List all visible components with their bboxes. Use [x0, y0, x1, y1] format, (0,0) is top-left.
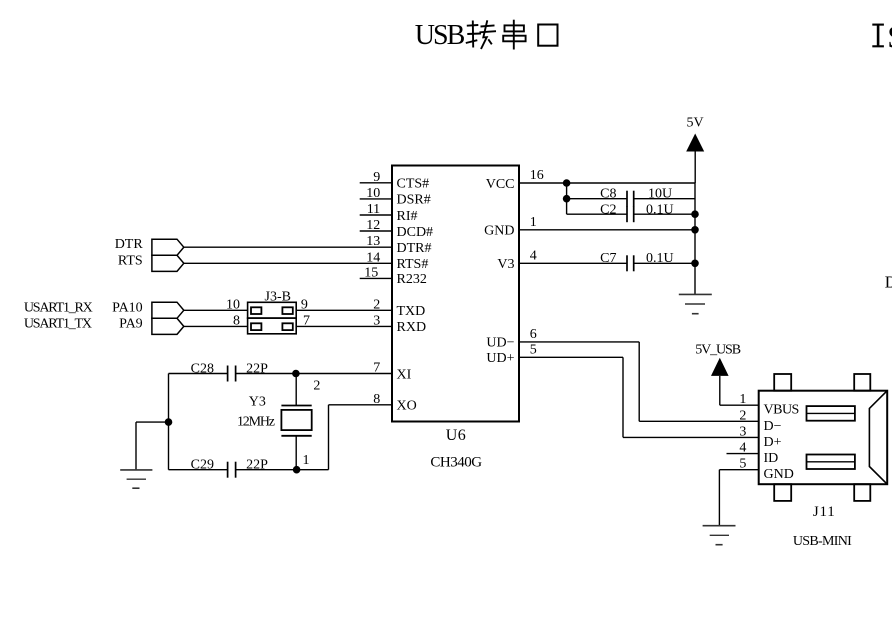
svg-text:C29: C29	[191, 458, 214, 473]
junction dot pin1/gnd	[691, 226, 699, 234]
svg-text:DCD#: DCD#	[397, 225, 434, 240]
wire C29 right to XO corner	[236, 469, 329, 471]
wire left vertical C28-C29	[168, 374, 170, 470]
svg-text:5V_USB: 5V_USB	[695, 343, 741, 358]
wire DTR to pin13	[184, 246, 392, 248]
svg-text:CTS#: CTS#	[397, 177, 430, 192]
svg-text:UD−: UD−	[486, 336, 514, 351]
wire PA9 to J3-B	[184, 325, 248, 327]
svg-text:2: 2	[739, 408, 746, 423]
wire 5V_USB to VBUS	[720, 404, 759, 406]
wire UD+ pin5 horizontal	[519, 356, 623, 358]
svg-text:Y3: Y3	[249, 394, 266, 409]
wire ground branch vertical	[135, 422, 137, 469]
svg-text:USART1_TX: USART1_TX	[24, 316, 92, 331]
port arrow RTS	[152, 255, 184, 271]
crystal Y3 body	[281, 410, 311, 430]
ground symbol (decoupling)	[679, 294, 712, 313]
svg-text:VBUS: VBUS	[764, 403, 799, 418]
svg-text:C8: C8	[600, 187, 616, 202]
wire C2 left	[567, 213, 627, 215]
connector inner chamfer	[869, 391, 887, 485]
wire UD+ vertical	[622, 357, 624, 437]
svg-text:0.1U: 0.1U	[646, 251, 674, 266]
junction dot VCC node a	[563, 179, 571, 187]
svg-text:S: S	[887, 19, 892, 55]
wire 5V stem	[694, 152, 696, 184]
svg-text:GND: GND	[764, 467, 794, 482]
svg-text:DSR#: DSR#	[397, 193, 431, 208]
svg-text:R232: R232	[397, 272, 427, 287]
svg-text:1: 1	[303, 453, 310, 468]
ground symbol (crystal)	[120, 470, 152, 488]
wire ground branch horizontal	[136, 421, 169, 423]
wire UD- to D-	[639, 420, 759, 422]
wire C8 right	[634, 198, 695, 200]
wire UD+ to D+	[623, 436, 759, 438]
svg-text:0.1U: 0.1U	[646, 203, 674, 218]
wire pin10 stub	[360, 198, 392, 200]
svg-text:PA10: PA10	[112, 300, 143, 315]
svg-text:VCC: VCC	[486, 177, 515, 192]
title glyph 口	[538, 25, 557, 46]
capacitor C29 plates	[228, 462, 236, 478]
capacitor C2 plates	[627, 206, 634, 222]
crystal Y3 bottom plate	[281, 435, 311, 437]
jumper pad pin8	[251, 323, 261, 330]
wire GND pin5 vertical	[718, 470, 720, 526]
wire pin15 stub	[360, 277, 392, 279]
svg-text:12MHz: 12MHz	[237, 415, 275, 430]
svg-text:RXD: RXD	[397, 320, 427, 335]
svg-text:GND: GND	[484, 224, 514, 239]
wire C29 left	[169, 469, 228, 471]
wire pin16 VCC	[519, 182, 695, 184]
jumper J3-B bottom row body	[248, 318, 297, 334]
junction dot left vertical	[165, 418, 173, 426]
crystal Y1 top plate	[281, 405, 311, 407]
wire C28 left	[169, 373, 228, 375]
wire pin12 stub	[360, 230, 392, 232]
svg-text:22P: 22P	[246, 361, 268, 376]
svg-text:9: 9	[301, 297, 308, 312]
svg-text:10: 10	[226, 297, 240, 312]
jumper pad pin9	[282, 307, 292, 314]
wire pin11 stub	[360, 214, 392, 216]
wire crystal top stem	[295, 374, 297, 406]
wire crystal bottom stem	[295, 436, 297, 470]
ground symbol (USB)	[703, 526, 736, 545]
svg-text:5: 5	[530, 342, 537, 357]
power symbol 5V_USB arrow	[711, 358, 729, 376]
wire C7 right	[634, 262, 695, 264]
op-amp/IC U6 body rectangle	[392, 166, 519, 422]
title USB转串口 (text part)	[415, 20, 465, 51]
title glyph 转	[466, 20, 496, 49]
junction dot XI node	[292, 370, 300, 378]
junction dot C7 right	[691, 260, 699, 268]
wire GND pin5 horizontal	[719, 469, 758, 471]
svg-text:4: 4	[530, 248, 537, 263]
svg-text:RTS#: RTS#	[397, 257, 429, 272]
svg-text:5V: 5V	[686, 116, 703, 131]
jumper pad pin10	[251, 307, 261, 314]
svg-text:TXD: TXD	[397, 304, 426, 319]
port arrow DTR	[152, 239, 184, 255]
connector mount tab top-left	[774, 374, 791, 391]
svg-text:1: 1	[739, 392, 746, 407]
svg-text:D: D	[885, 273, 892, 292]
wire J3-B to RXD pin3	[296, 325, 392, 327]
svg-text:DTR: DTR	[115, 237, 144, 252]
svg-text:C7: C7	[600, 251, 616, 266]
power symbol 5V arrow	[686, 134, 704, 152]
svg-text:2: 2	[313, 379, 320, 394]
wire PA10 to J3-B	[184, 309, 248, 311]
wire XO horizontal to pin8	[329, 404, 393, 406]
svg-text:J11: J11	[813, 504, 836, 520]
connector J11 body	[759, 391, 888, 485]
jumper J3-B top row body	[248, 302, 297, 318]
wire XO vertical	[328, 405, 330, 470]
svg-text:3: 3	[739, 424, 746, 439]
wire C28 right to XI pin7	[236, 373, 392, 375]
svg-text:1: 1	[530, 215, 537, 230]
svg-text:USART1_RX: USART1_RX	[24, 300, 93, 315]
partial label D (right edge, next sheet)	[885, 273, 892, 292]
svg-text:USB-MINI: USB-MINI	[793, 534, 852, 549]
port arrow PA9	[152, 318, 184, 334]
svg-text:D+: D+	[764, 435, 782, 450]
svg-text:6: 6	[530, 327, 537, 342]
svg-text:8: 8	[233, 313, 240, 328]
svg-text:10U: 10U	[648, 187, 672, 202]
partial title IS (right edge, next sheet)	[872, 19, 892, 55]
svg-text:UD+: UD+	[486, 351, 514, 366]
svg-text:RTS: RTS	[118, 253, 143, 268]
svg-text:7: 7	[303, 313, 310, 328]
svg-text:DTR#: DTR#	[397, 241, 432, 256]
connector mount tab bottom-right	[854, 484, 870, 501]
svg-text:CH340G: CH340G	[430, 455, 482, 471]
wire UD- vertical	[638, 342, 640, 421]
svg-text:V3: V3	[497, 257, 514, 272]
capacitor C8 plates	[627, 191, 634, 207]
capacitor C28 plates	[228, 366, 236, 382]
svg-text:C2: C2	[600, 203, 616, 218]
wire RTS to pin14	[184, 262, 392, 264]
connector mount tab bottom-left	[774, 484, 791, 501]
svg-text:U6: U6	[446, 427, 467, 444]
svg-text:USB: USB	[415, 20, 465, 51]
svg-text:XI: XI	[397, 367, 412, 382]
svg-text:D−: D−	[764, 419, 782, 434]
svg-text:XO: XO	[397, 399, 417, 414]
svg-text:RI#: RI#	[397, 209, 418, 224]
connector bottom pad	[807, 455, 855, 470]
connector top pad	[807, 406, 855, 421]
svg-text:PA9: PA9	[119, 316, 143, 331]
wire J3-B to TXD pin2	[296, 309, 392, 311]
wire C8 left	[567, 198, 627, 200]
wire ID stub	[727, 453, 759, 455]
wire pin9 stub	[360, 182, 392, 184]
connector mount tab top-right	[854, 374, 870, 391]
junction dot C2 right	[691, 210, 699, 218]
wire right vertical to ground	[694, 183, 696, 294]
svg-text:ID: ID	[764, 451, 779, 466]
wire pin1 GND	[519, 229, 695, 231]
title glyph 串	[503, 20, 525, 50]
wire C8/C2 left vertical	[566, 183, 568, 214]
wire 5V_USB stem	[719, 376, 721, 405]
port arrow PA10	[152, 302, 184, 318]
jumper pad pin7	[282, 323, 292, 330]
junction dot VCC node b	[563, 195, 571, 203]
wire UD- pin6 horizontal	[519, 341, 639, 343]
svg-text:16: 16	[530, 168, 544, 183]
capacitor C7 plates	[627, 255, 634, 271]
junction dot XO node	[293, 466, 301, 474]
wire C2 right	[634, 213, 695, 215]
wire pin4 V3 to C7	[519, 262, 627, 264]
